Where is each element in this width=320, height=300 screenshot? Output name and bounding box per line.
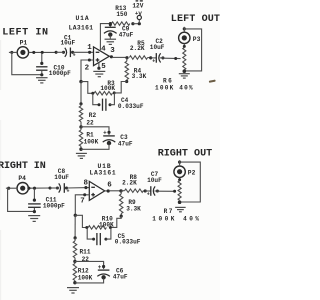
label R8 [122, 174, 137, 187]
U1A minus sign [96, 51, 100, 53]
wire U1B pin6 output [105, 189, 122, 192]
wire node to C6 top [75, 261, 104, 263]
node R3 left [91, 92, 94, 95]
label C9 [119, 25, 134, 38]
svg-text:R1: R1 [86, 131, 94, 138]
ground U1A pin5 [93, 71, 105, 76]
svg-text:12V: 12V [132, 3, 143, 10]
U1A pin5 label [101, 63, 106, 71]
node R9 bottom [120, 215, 123, 218]
capacitor C9 [104, 23, 117, 39]
label U1B [90, 163, 117, 176]
node R3 right [113, 91, 116, 94]
wire U1A pin4 to rail [100, 24, 109, 50]
svg-text:22: 22 [86, 119, 94, 126]
connector P1 [17, 40, 28, 59]
wire C6 bottom [75, 279, 104, 283]
capacitor C6 [97, 263, 110, 280]
label P3 [193, 36, 201, 43]
node P2 top [178, 161, 181, 164]
connector P3 [179, 27, 190, 47]
node C5 right [104, 238, 107, 241]
svg-text:150: 150 [116, 11, 127, 18]
U1A plus sign [96, 58, 100, 62]
potentiometer R7 [178, 178, 182, 204]
resistor R13 [112, 22, 135, 26]
svg-text:P3: P3 [193, 36, 201, 43]
svg-text:47uF: 47uF [119, 31, 134, 38]
svg-text:2.2K: 2.2K [122, 179, 137, 186]
node C4 right [109, 103, 112, 106]
ground under R12 [67, 288, 79, 293]
svg-text:100K: 100K [100, 85, 115, 92]
resistor R12 [73, 261, 77, 282]
svg-text:U1A: U1A [76, 15, 90, 22]
scan artifact dash [209, 80, 216, 83]
node R4 bottom [125, 80, 128, 83]
svg-text:3: 3 [110, 47, 115, 55]
label U1A [69, 15, 94, 31]
svg-text:2: 2 [85, 64, 90, 72]
node feedback A [79, 80, 82, 83]
wire C4 to R3 right [110, 94, 114, 105]
wire U1A pin3 output [109, 55, 127, 58]
svg-text:5: 5 [101, 63, 106, 71]
wire P4 sleeve to C11 bottom [8, 189, 34, 212]
svg-text:LEFT IN: LEFT IN [2, 28, 48, 39]
P4 wire-left dot [6, 187, 17, 190]
node R11-R12-C6 [73, 260, 76, 263]
svg-text:RIGHT IN: RIGHT IN [0, 161, 46, 172]
terminal +V 12V [137, 15, 141, 23]
title LEFT OUT [171, 14, 220, 25]
label R11 [80, 248, 91, 262]
node R1 bottom [79, 148, 82, 151]
svg-text:LA3161: LA3161 [69, 24, 94, 31]
svg-text:P4: P4 [18, 175, 26, 182]
svg-text:+V: +V [135, 10, 142, 17]
node R11 top [74, 236, 77, 239]
wire node to R10 [75, 215, 86, 227]
svg-text:R11: R11 [80, 248, 91, 255]
capacitor C3 [103, 128, 116, 145]
label P2 [188, 169, 196, 176]
ground under R1 [76, 153, 87, 158]
svg-text:47uF: 47uF [118, 140, 133, 147]
wire C2 to R6 wiper [163, 57, 181, 60]
resistor R11 [73, 238, 77, 261]
svg-text:P1: P1 [20, 40, 28, 47]
wire R3 left to C4 [93, 94, 98, 105]
wire R13 to +V [133, 22, 141, 25]
label R6 [155, 77, 194, 91]
node C4 left [98, 103, 101, 106]
svg-text:10uF: 10uF [147, 177, 162, 184]
resistor R5 [129, 56, 152, 60]
label C8 [54, 168, 69, 181]
capacitor C4 [103, 99, 106, 111]
wire P1 to C1 [29, 51, 56, 54]
U1A pin2 label [85, 64, 90, 72]
op-amp U1A triangle [94, 47, 110, 66]
connector P4 [17, 175, 28, 194]
label R2 [86, 112, 96, 126]
resistor R10 [88, 226, 106, 230]
svg-text:P2: P2 [188, 169, 196, 176]
label C4 [118, 97, 144, 110]
label R7 [152, 208, 201, 223]
wire pin7 to feedback node [75, 193, 89, 214]
U1B pin8 label [84, 179, 89, 187]
label R10 [99, 216, 114, 229]
svg-text:1: 1 [87, 44, 92, 52]
svg-text:2.2K: 2.2K [130, 45, 145, 52]
node C5 left [92, 238, 95, 241]
label C7 [147, 171, 162, 184]
wire R3 to R4 [114, 82, 127, 93]
svg-text:100K: 100K [84, 139, 99, 146]
resistor R3 [94, 91, 112, 95]
wire feedback node B down [74, 215, 76, 237]
node R2 top [79, 102, 82, 105]
wire pin2 to feedback node [81, 58, 94, 80]
wire P2 loop [180, 162, 201, 202]
capacitor C8 [48, 183, 69, 194]
svg-text:10uF: 10uF [150, 44, 165, 51]
wire C5 to R10 right [106, 228, 111, 239]
U1B plus sign [91, 193, 95, 197]
svg-text:R7: R7 [164, 208, 174, 215]
ground under C9 [105, 39, 117, 44]
label C11 [43, 196, 65, 209]
label R12 [78, 268, 93, 282]
label R5 [130, 40, 145, 52]
node R12 bottom [73, 281, 76, 284]
wire node to C3 top [81, 127, 109, 129]
wire C8 to U1B pin8 [67, 186, 90, 189]
resistor R1 [79, 127, 83, 149]
node rail-C9-R13 [109, 22, 112, 25]
node P3 top [183, 27, 186, 30]
label +V [135, 10, 142, 17]
wire node to R3 [81, 82, 92, 94]
wire C3 bottom [81, 144, 109, 149]
capacitor C5 [97, 233, 100, 245]
U1B pin6 label [107, 182, 112, 190]
title RIGHT OUT [158, 149, 213, 160]
label P1 wire-left dot [9, 51, 17, 54]
svg-text:1000pF: 1000pF [49, 70, 71, 77]
svg-text:100K 40%: 100K 40% [152, 216, 201, 223]
capacitor C7 [144, 186, 159, 197]
resistor R2 [79, 104, 83, 127]
svg-text:LA3161: LA3161 [90, 170, 117, 177]
ground under R6 [179, 74, 190, 78]
svg-text:47uF: 47uF [113, 273, 128, 280]
svg-text:100K: 100K [78, 274, 93, 281]
label R4 [132, 67, 147, 80]
svg-text:1000pF: 1000pF [43, 203, 65, 210]
svg-text:+: + [152, 59, 155, 65]
wire P4 to C8 [27, 187, 50, 190]
svg-text:4: 4 [101, 45, 106, 53]
label 12V [132, 3, 143, 10]
title LEFT IN [2, 28, 48, 39]
svg-text:100K 40%: 100K 40% [155, 85, 194, 92]
svg-text:6: 6 [107, 182, 112, 190]
node output-R4 [125, 56, 128, 59]
svg-text:LEFT OUT: LEFT OUT [171, 14, 220, 25]
wire R10 left to C5 [87, 228, 93, 239]
label R9 [126, 199, 141, 212]
title RIGHT IN [0, 161, 46, 172]
wire P1 sleeve to C10 bottom [12, 53, 41, 75]
U1A pin4 label [101, 45, 106, 53]
resistor R8 [121, 189, 146, 193]
label R13 [115, 5, 127, 18]
ground under C10 [36, 78, 48, 83]
resistor R4 [125, 58, 129, 82]
svg-text:0.033uF: 0.033uF [115, 239, 141, 246]
node R2-R1-C3 [79, 125, 82, 128]
label C10 [49, 64, 71, 77]
node R10 right [109, 226, 112, 229]
wire P3 loop [184, 29, 201, 71]
wire feedback node down [80, 82, 82, 104]
wire C7 to R7 wiper [157, 190, 176, 193]
label C2 [150, 38, 165, 51]
U1A pin3 label [110, 47, 115, 55]
U1B minus sign [91, 186, 95, 188]
label C6 [113, 268, 128, 281]
capacitor C10 [36, 53, 47, 76]
connector P2 [174, 160, 185, 180]
U1A pin1 label [87, 44, 92, 52]
svg-text:+: + [147, 192, 150, 198]
svg-text:3.3K: 3.3K [132, 73, 147, 80]
scan left edge [0, 40, 1, 300]
capacitor C2 [149, 53, 164, 64]
wire R9 to R10 [111, 216, 121, 227]
svg-text:3.3K: 3.3K [126, 205, 141, 212]
potentiometer R6 [183, 45, 187, 73]
capacitor C1 [55, 48, 76, 59]
label R3 [100, 80, 115, 92]
svg-text:8: 8 [84, 179, 89, 187]
node R10 left [85, 226, 88, 229]
label C1 [61, 34, 76, 46]
ground under C11 [28, 216, 40, 222]
label R1 [84, 131, 99, 145]
svg-text:7: 7 [80, 197, 85, 205]
svg-text:RIGHT OUT: RIGHT OUT [158, 149, 213, 160]
svg-text:R6: R6 [163, 77, 173, 84]
svg-text:10uF: 10uF [61, 40, 76, 47]
resistor R9 [119, 191, 123, 216]
label C5 [115, 233, 141, 245]
op-amp U1B triangle [89, 181, 104, 200]
svg-text:R2: R2 [89, 112, 97, 119]
U1B pin7 label [80, 197, 85, 205]
cut-off label X1 [136, 0, 143, 2]
capacitor C11 [28, 189, 41, 214]
wire C1 to U1A pin1 [73, 51, 94, 54]
svg-text:0.033uF: 0.033uF [118, 103, 144, 110]
svg-text:10uF: 10uF [54, 174, 69, 181]
node output-R9 [119, 189, 122, 192]
label C3 [118, 134, 133, 147]
node feedback B [74, 214, 77, 217]
ground under R7 [175, 207, 186, 211]
wire U1A pin5 to ground [97, 63, 100, 70]
